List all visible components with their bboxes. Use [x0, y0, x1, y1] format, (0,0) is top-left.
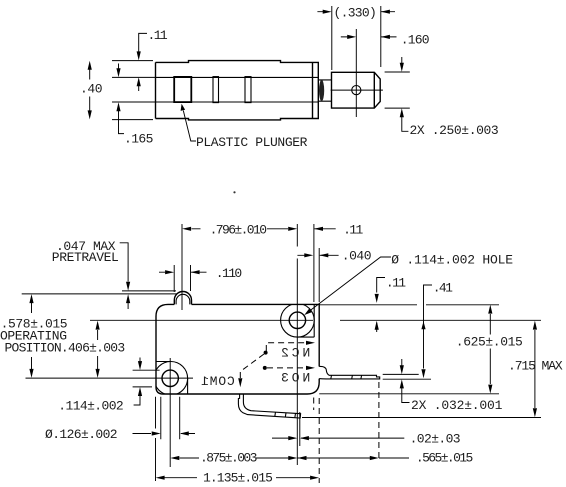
- dim 2X .250 extension lines: [385, 72, 410, 108]
- NC2 arrowhead: [306, 341, 315, 345]
- top view internal parting lines: [156, 77, 319, 102]
- bottom left hole boss circle: [154, 362, 188, 396]
- dim .110 ext lines: [174, 265, 190, 292]
- terminal bottom edge ext: [383, 378, 431, 380]
- body bottom edge ext: [319, 393, 499, 395]
- com terminal tip ext: [299, 412, 301, 446]
- NO3 arrowhead: [306, 366, 315, 370]
- svg-text:(.330): (.330): [334, 6, 377, 21]
- dim .11 arrows: [137, 51, 141, 86]
- svg-text:.565±.015: .565±.015: [416, 451, 473, 466]
- vent slot 1: [213, 77, 219, 103]
- pin seal shading: [319, 80, 324, 101]
- svg-text:.114±.002: .114±.002: [58, 399, 123, 414]
- svg-text:2X .250±.003: 2X .250±.003: [410, 123, 499, 138]
- top right hole boss circle: [281, 304, 315, 338]
- dim .114 bracket: [134, 358, 140, 406]
- hidden line to NO3: [267, 367, 308, 369]
- COM1 arrowhead: [238, 378, 242, 387]
- dim .165 stubs and bracket: [119, 64, 125, 134]
- dim 1.135 line: [165, 477, 311, 479]
- operating position line: [22, 293, 177, 295]
- plastic plunger leader: [183, 111, 196, 142]
- dim .047 pretravel bracket: [120, 243, 128, 309]
- actuator hole centerlines: [331, 29, 383, 117]
- dim Ø.126 arrows: [133, 433, 196, 435]
- body top edge ext line: [319, 304, 499, 306]
- dim .11 right bracket: [377, 278, 385, 333]
- svg-text:.875±.003: .875±.003: [200, 451, 257, 466]
- dim .165 arrows: [116, 68, 120, 111]
- dim .11 boss arrows: [314, 228, 335, 230]
- hole diameter ext lines: [161, 397, 180, 440]
- svg-text:.040: .040: [342, 249, 371, 264]
- dim 2X .250 arrows: [402, 57, 409, 131]
- svg-text:1.135±.015: 1.135±.015: [203, 471, 272, 486]
- svg-text:.160: .160: [401, 33, 429, 48]
- svg-text:PLASTIC PLUNGER: PLASTIC PLUNGER: [196, 135, 308, 150]
- dim .114 tangent ext lines: [133, 370, 160, 387]
- svg-text:Ø .114±.002 HOLE: Ø .114±.002 HOLE: [391, 253, 513, 268]
- dim .796 line: [192, 228, 289, 230]
- NO3 terminal: [319, 366, 380, 378]
- svg-text:.02±.03: .02±.03: [410, 432, 460, 447]
- svg-text:POSITION.406±.003: POSITION.406±.003: [5, 341, 125, 356]
- terminal end ext dashed: [378, 382, 380, 462]
- top right hole vertical centerline: [296, 224, 298, 465]
- hole leader line: [307, 257, 392, 313]
- actuator hole circle: [352, 86, 361, 95]
- top right hole horizontal centerline: [90, 319, 541, 321]
- body right edge ext dashed: [318, 398, 320, 483]
- svg-text:.40: .40: [80, 82, 102, 97]
- svg-text:Ø.126±.002: Ø.126±.002: [45, 427, 117, 442]
- svg-text:PRETRAVEL: PRETRAVEL: [52, 250, 119, 265]
- dim .565 line: [298, 457, 410, 459]
- terminal top edge ext: [383, 373, 419, 375]
- vent slot 2: [245, 77, 251, 103]
- svg-text:2X .032±.001: 2X .032±.001: [411, 398, 503, 413]
- dim .02 arrows: [272, 437, 404, 439]
- dim .578 line: [31, 303, 33, 369]
- dim (.330) extension lines: [332, 6, 381, 70]
- bottom left hole vertical centerline: [169, 358, 171, 467]
- NO3 terminal hatch ticks: [331, 375, 362, 379]
- stray dot: [233, 191, 235, 193]
- hidden common lever diagonal: [240, 354, 264, 381]
- dim .625 line: [489, 314, 491, 384]
- svg-text:NO3: NO3: [278, 371, 310, 386]
- lowest point line: [302, 417, 541, 419]
- svg-text:.796±.010: .796±.010: [210, 223, 267, 238]
- plunger bump inner arc (operating position): [176, 294, 190, 304]
- plunger bump outer arc (free position): [174, 292, 191, 305]
- dim .406 line: [97, 330, 99, 369]
- top view end cap: [313, 62, 319, 118]
- dim .796 extension line left: [181, 224, 183, 310]
- COM1 terminal: [238, 394, 300, 418]
- NO3 junction dot: [263, 366, 267, 370]
- dim .160 arrows: [341, 36, 397, 38]
- svg-text:.165: .165: [124, 132, 153, 147]
- dim .40 line: [89, 70, 91, 111]
- actuator block: [332, 72, 381, 108]
- free position line: [122, 290, 176, 292]
- svg-text:.110: .110: [216, 266, 242, 281]
- bottom left hole horizontal centerline: [26, 377, 194, 379]
- bottom left boss tangent lines: [156, 362, 188, 395]
- plastic plunger square: [174, 77, 191, 102]
- top view switch body outline: [156, 61, 313, 120]
- dim .165 extension lines: [112, 77, 155, 102]
- svg-text:.11: .11: [148, 28, 168, 43]
- dim .040 body edge ext: [318, 248, 320, 302]
- top right boss tangent lines: [297, 304, 314, 337]
- dim .040 arrows: [297, 254, 338, 256]
- svg-text:.11: .11: [343, 223, 363, 238]
- dim (.330) arrows: [317, 11, 395, 13]
- dim .40 extension lines: [112, 61, 153, 120]
- dim .11 boss ext line: [313, 224, 315, 302]
- dim .047 arrows: [126, 282, 130, 303]
- COM1 terminal hatch ticks: [275, 412, 296, 418]
- dim .715 line: [534, 330, 536, 408]
- dim .40 arrows: [88, 61, 92, 120]
- svg-text:COM1: COM1: [200, 374, 234, 389]
- svg-text:.41: .41: [433, 281, 453, 296]
- svg-text:.11: .11: [386, 276, 406, 291]
- dim .110 arrows: [159, 271, 207, 273]
- svg-text:NC2: NC2: [278, 345, 310, 360]
- dim .875 line: [180, 457, 289, 459]
- top right mounting hole: [289, 312, 305, 328]
- dim .41 bracket: [424, 285, 433, 369]
- bottom left mounting hole: [162, 370, 178, 386]
- hidden stub below body: [313, 398, 315, 411]
- hole leader arrowhead: [304, 308, 311, 315]
- dim 2X .032 arrows: [402, 359, 410, 403]
- svg-text:.625±.015: .625±.015: [456, 335, 523, 350]
- hidden contact junction dot: [264, 351, 268, 355]
- hidden line to NC2: [266, 343, 308, 351]
- body left edge ext: [155, 397, 157, 481]
- dim .11 bracket: [139, 33, 147, 91]
- svg-text:.715 MAX: .715 MAX: [508, 359, 563, 374]
- front view switch body outline: [156, 304, 319, 394]
- actuator pin: [318, 80, 331, 101]
